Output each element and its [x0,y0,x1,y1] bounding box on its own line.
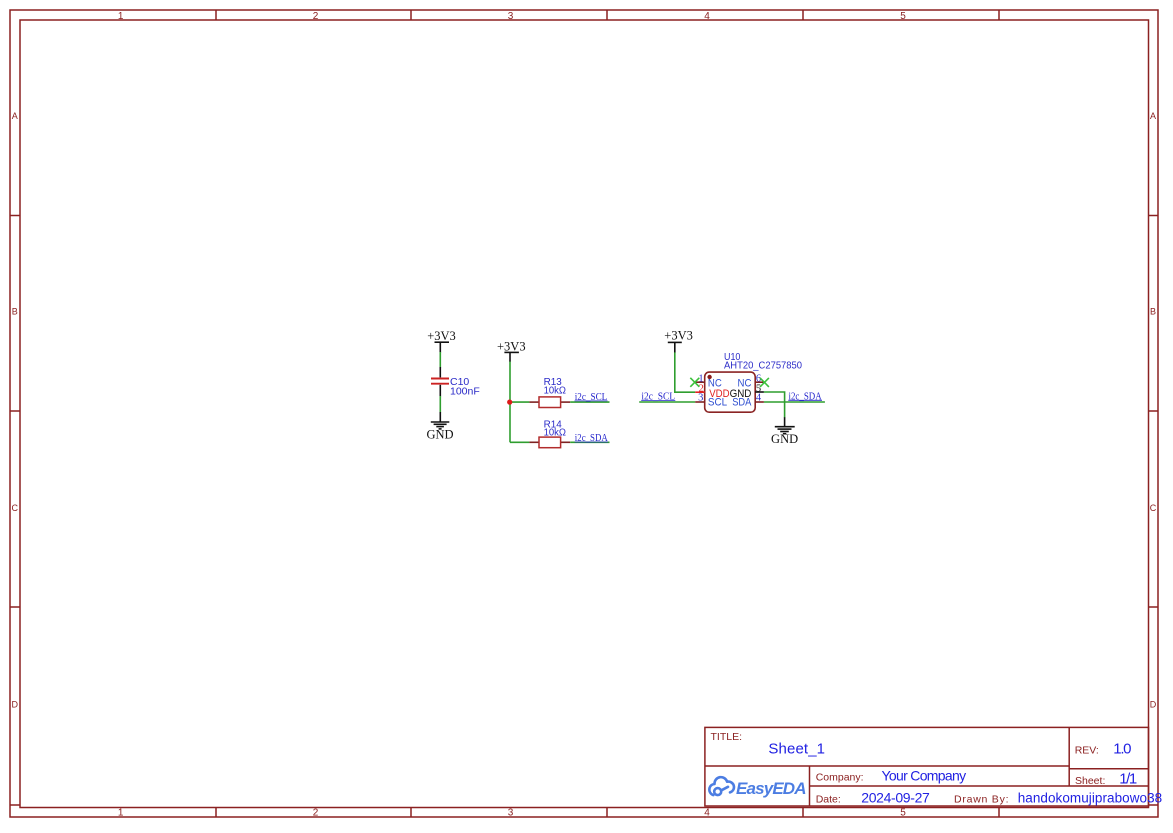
svg-text:3: 3 [508,808,514,819]
wire [439,396,441,412]
svg-text:10kΩ: 10kΩ [544,385,567,397]
wire [510,441,529,443]
net label i2c_SDA [788,391,822,402]
wire [509,402,511,442]
svg-text:+3V3: +3V3 [427,329,456,343]
svg-text:SCL: SCL [708,397,727,409]
capacitor C10 [431,367,480,397]
svg-text:1: 1 [118,11,124,22]
pin 5 GND [730,383,764,400]
resistor R14 [529,419,570,448]
svg-text:+3V3: +3V3 [497,339,526,353]
pin 3 SCL [695,392,727,408]
svg-text:AHT20_C2757850: AHT20_C2757850 [724,359,802,371]
svg-text:3: 3 [698,392,703,403]
svg-text:D: D [1150,700,1157,710]
svg-text:Drawn By:: Drawn By: [954,794,1009,806]
svg-text:SDA: SDA [732,397,752,409]
svg-text:Company:: Company: [816,771,864,783]
svg-text:1.0: 1.0 [1113,741,1131,758]
svg-text:B: B [1150,307,1156,317]
svg-text:+3V3: +3V3 [664,329,693,343]
svg-text:C: C [12,503,19,513]
svg-text:GND: GND [771,432,798,446]
svg-text:1: 1 [118,808,124,819]
wire [570,441,609,443]
svg-text:2: 2 [313,808,319,819]
pin 1 NC [695,374,722,390]
svg-text:Date:: Date: [816,794,841,806]
wire [510,401,530,403]
svg-text:2: 2 [313,11,319,22]
svg-text:4: 4 [704,808,710,819]
power +3V3 net C10 branch [427,329,456,353]
wire [509,362,511,403]
svg-text:D: D [12,700,19,710]
pin 2 VDD [695,383,729,400]
net label i2c_SDA [575,433,609,444]
svg-text:5: 5 [900,808,906,819]
svg-text:4: 4 [756,392,762,403]
svg-text:REV:: REV: [1075,745,1099,757]
wire [570,401,609,403]
wire [675,352,695,392]
svg-text:GND: GND [426,428,453,442]
net label i2c_SCL [575,392,608,403]
svg-text:C: C [1150,503,1157,513]
ground GND C10 branch [426,412,453,442]
power +3V3 net U10 branch [664,329,693,353]
net label i2c_SCL [641,392,675,403]
power +3V3 net resistor branch [497,339,526,361]
no-connect cross pin 1 [690,378,699,387]
svg-text:Your Company: Your Company [882,768,967,784]
svg-text:10kΩ: 10kΩ [544,427,567,439]
resistor R13 [529,376,570,408]
svg-text:EasyEDA: EasyEDA [736,779,807,798]
pin 4 SDA [732,392,764,408]
svg-text:B: B [12,307,18,317]
no-connect cross pin 6 [760,378,769,387]
svg-text:2024-09-27: 2024-09-27 [861,790,930,806]
svg-text:Sheet_1: Sheet_1 [768,740,825,757]
svg-text:1/1: 1/1 [1119,771,1137,788]
wire [639,401,695,403]
ground GND U10 branch [771,417,798,446]
svg-text:5: 5 [900,11,906,22]
svg-text:3: 3 [508,11,514,22]
svg-text:4: 4 [704,11,710,22]
svg-text:Sheet:: Sheet: [1075,775,1105,787]
svg-text:handokomujiprabowo38: handokomujiprabowo38 [1018,791,1162,806]
wire [764,401,825,403]
svg-text:i2c_SCL: i2c_SCL [641,392,675,403]
junction [507,400,512,405]
svg-text:TITLE:: TITLE: [711,731,743,743]
IC U10 AHT20_C2757850 [705,351,802,412]
svg-text:100nF: 100nF [450,385,480,397]
wire [764,392,785,418]
svg-text:A: A [12,111,18,121]
EasyEDA logo [709,777,734,795]
wire [439,352,441,368]
svg-text:i2c_SDA: i2c_SDA [789,391,823,402]
pin 6 NC [738,374,764,390]
svg-text:A: A [1150,111,1156,121]
